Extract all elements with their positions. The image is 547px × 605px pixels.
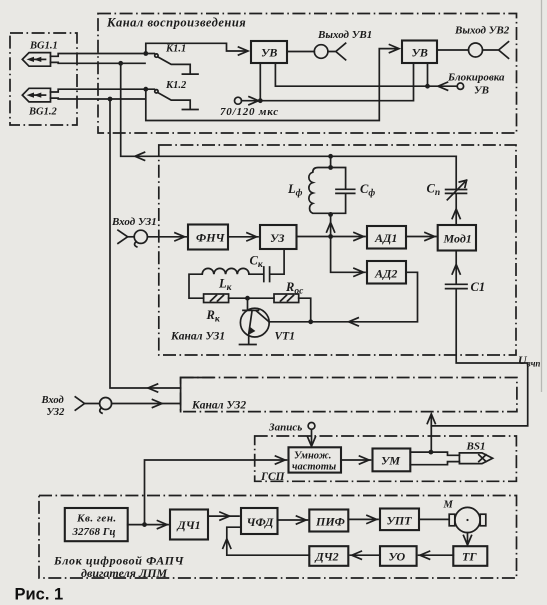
svg-text:АД2: АД2 [374, 267, 397, 281]
wire: Rк to Rос with base node [229, 297, 274, 299]
svg-text:УВ: УВ [412, 46, 428, 60]
wire: ДЧ2 feedback to ЧФД [227, 527, 309, 555]
wire: Uвчп path Мод1 bottom through C1 down [431, 251, 527, 426]
block УВ2 [402, 41, 437, 64]
wire: Блокировка УВ line [275, 63, 457, 86]
svg-text:УМ: УМ [381, 454, 400, 468]
svg-text:частоты: частоты [292, 461, 336, 472]
LC tank Lф branch (coil) [309, 168, 331, 214]
box: Канал УЗ1 middle unit (dash-dot) [159, 145, 516, 355]
wire: K1.1 node to УВ1 input [146, 43, 247, 53]
jack circle Выход УВ2 [469, 43, 483, 57]
switch K1.2 [155, 90, 198, 110]
node: tank bottom to АД1 line [328, 212, 333, 217]
wire: ФНЧ to УЗ [228, 236, 258, 238]
scan artifact: faint page edge line [541, 0, 543, 392]
wire: left rail from head2 lower terminal to Канал УЗ2 [110, 99, 181, 388]
svg-text:Выход УВ1: Выход УВ1 [317, 29, 372, 41]
svg-text:32768 Гц: 32768 Гц [72, 526, 116, 538]
svg-text:ВG1.2: ВG1.2 [28, 107, 57, 118]
svg-text:ГСП: ГСП [260, 471, 286, 483]
terminal circle Блокировка УВ [457, 83, 463, 89]
LC tank Cф branch (capacitor) [331, 168, 355, 214]
svg-text:Выход УВ2: Выход УВ2 [454, 25, 510, 37]
magnetic head BG1.2 body [22, 88, 50, 102]
capacitor C1 [446, 284, 467, 288]
block Умнож частоты [289, 447, 342, 472]
svg-text:Канал воспроизведения: Канал воспроизведения [106, 16, 246, 30]
svg-text:К1.1: К1.1 [165, 44, 186, 55]
svg-text:ВS1: ВS1 [466, 441, 486, 453]
capacitor Cк [249, 249, 284, 281]
block ТГ [453, 546, 487, 566]
wire: motor to ТГ [467, 533, 469, 545]
svg-text:УПТ: УПТ [387, 514, 413, 528]
wire: loop left side [189, 274, 204, 298]
svg-text:С1: С1 [471, 280, 486, 294]
wire: УО to ДЧ2 [350, 554, 380, 556]
wire: Rос to collector node [299, 298, 311, 322]
wire: АД1 to Мод1 [406, 236, 436, 238]
svg-text:УЗ: УЗ [270, 231, 284, 245]
motor M [449, 507, 486, 532]
block ДЧ2 [309, 546, 348, 566]
svg-text:Вход: Вход [41, 395, 64, 406]
svg-text:Канал УЗ1: Канал УЗ1 [170, 331, 225, 343]
svg-text:ВG1.1: ВG1.1 [29, 41, 58, 52]
wire: УЗ output to АД1 [297, 236, 366, 238]
svg-text:Канал УЗ2: Канал УЗ2 [191, 400, 246, 412]
block АД1 [367, 226, 406, 249]
svg-text:Блокировка: Блокировка [447, 72, 505, 84]
variable capacitor Cп [446, 156, 467, 225]
svg-text:АД1: АД1 [374, 231, 397, 245]
wire: ПИФ to УПТ [348, 518, 378, 520]
inductor Lк [202, 268, 249, 274]
block Кв. ген. 32768 Гц [65, 508, 128, 541]
svg-text:УО: УО [389, 550, 406, 564]
block УМ [373, 449, 411, 472]
svg-text:УВ: УВ [474, 85, 489, 97]
wire: УВ1 output to jack [287, 51, 314, 53]
box: Блок цифровой ФАПЧ (dash-dot) [39, 496, 517, 579]
jack circle Выход УВ1 [314, 45, 328, 59]
svg-text:ДЧ2: ДЧ2 [315, 550, 339, 564]
svg-text:ФНЧ: ФНЧ [196, 231, 226, 245]
svg-text:двигателя ЛПМ: двигателя ЛПМ [81, 566, 168, 580]
svg-text:УВ: УВ [261, 46, 277, 60]
block УПТ [380, 509, 419, 531]
wire: Запись down into Умнож частоты [311, 429, 313, 445]
transistor VT1 [240, 298, 270, 344]
erase head BS1 with feed stub [410, 452, 492, 465]
wire: quartz reference up into ГСП multiplier [145, 460, 287, 525]
wire: ЧФД to ПИФ [278, 519, 308, 521]
wire: 70/120 time-constant line [242, 63, 414, 101]
wire: УВ2 bottom to blocking line [427, 63, 429, 86]
svg-text:М: М [443, 500, 454, 511]
resistor Rос [274, 294, 299, 303]
svg-text:VT1: VT1 [275, 331, 295, 343]
block ЧФД [241, 508, 278, 534]
svg-text:УЗ2: УЗ2 [47, 407, 66, 418]
box: Канал воспроизведения (dash-dot) [98, 14, 517, 134]
junction dot K1.1 node [143, 51, 148, 56]
node: tank top connection [330, 156, 332, 167]
svg-text:70/120 мкс: 70/120 мкс [220, 106, 279, 118]
block ДЧ1 [170, 510, 208, 540]
svg-text:ДЧ1: ДЧ1 [177, 518, 201, 532]
block УО [380, 546, 417, 566]
wire: ТГ to УО [419, 554, 454, 556]
svg-text:Мод1: Мод1 [443, 232, 472, 246]
head BG1.1 connector stub and pair wires [51, 54, 155, 64]
wire: record line from head1 lower terminal to tank/Мод1 [121, 63, 457, 156]
resistor Rк [204, 294, 229, 303]
block АД2 [367, 261, 406, 284]
input symbol Вход УЗ1 [118, 230, 187, 247]
junction dot head1 lower terminal [118, 61, 123, 66]
input symbol Вход УЗ2 [75, 397, 180, 413]
svg-text:К1.2: К1.2 [165, 80, 187, 91]
wire: УВ2 output to jack [437, 49, 468, 51]
svg-text:Кв. ген.: Кв. ген. [76, 513, 117, 525]
svg-text:Вход УЗ1: Вход УЗ1 [111, 216, 157, 228]
block УВ1 [251, 41, 287, 63]
magnetic head BG1.1 body [22, 53, 50, 67]
junction dot head2 lower terminal [108, 97, 113, 102]
junction dot K1.2 node [143, 87, 148, 92]
svg-text:ТГ: ТГ [462, 550, 477, 564]
svg-text:Рис. 1: Рис. 1 [15, 586, 64, 604]
wire: АД2 output down to VT1 collector line [269, 272, 418, 322]
wire: УПТ to motor [419, 518, 449, 520]
block Мод1 [438, 225, 476, 251]
wire: Uвчп into Канал УЗ2 bottom and down to УМ output [430, 415, 432, 453]
wire: Умнож to УМ [341, 459, 371, 461]
switch K1.1 [155, 54, 198, 74]
svg-text:ЧФД: ЧФД [247, 515, 275, 529]
connector chevron Выход УВ2 [483, 42, 509, 59]
block УЗ [260, 225, 297, 249]
wire: quartz output to ДЧ1 [128, 524, 168, 526]
box: Канал УЗ2 (dash-dot) [181, 378, 517, 412]
svg-text:Умнож.: Умнож. [294, 450, 331, 461]
terminal circle 70/120 мкс [235, 97, 242, 104]
svg-text:Запись: Запись [268, 422, 302, 434]
head BG1.2 connector stub and pair wires [51, 89, 155, 99]
box: ГСП (dash-dot) [255, 436, 517, 481]
wire: АД2 branch from АД1 input line [331, 237, 365, 273]
block ПИФ [309, 510, 348, 532]
terminal circle Запись [308, 423, 315, 430]
block ФНЧ [188, 225, 228, 250]
box: magnetic heads unit (dash-dot) [10, 33, 77, 125]
wire: ДЧ1 to ЧФД [208, 515, 239, 517]
wire: K1.2 node down and across to УВ2 input [146, 49, 398, 121]
svg-text:ПИФ: ПИФ [315, 515, 345, 529]
connector chevron Выход УВ1 [328, 43, 346, 60]
